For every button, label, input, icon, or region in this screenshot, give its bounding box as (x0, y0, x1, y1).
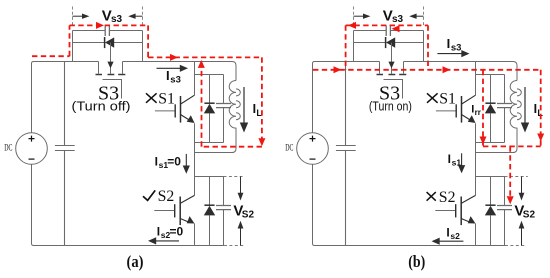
label Is3 with arrow (b) (437, 36, 469, 57)
red current path (b): main horizontal through S3 with right arrows (313, 66, 541, 73)
wire: S1 snubber bottom (b) (476, 142, 505, 144)
svg-text:S1: S1 (439, 91, 456, 108)
svg-text:(b): (b) (408, 252, 425, 271)
red current path (b): clamp loop top with left arrow (346, 22, 428, 29)
svg-text:S1: S1 (158, 91, 175, 108)
svg-text:I: I (157, 225, 160, 239)
red current path (a): clamp loop top with right arrow (70, 22, 149, 29)
svg-text:s3: s3 (392, 14, 404, 25)
label x-mark S1 (a) (146, 93, 157, 103)
label check-mark S2 (a) (143, 190, 155, 200)
red current path (b): drop to S2 snubber with down arrow (507, 146, 514, 204)
wire: top rail S3 to inductor (b) (404, 62, 518, 81)
diode Ds3 (points left) (b) (386, 37, 396, 48)
svg-text:s3: s3 (111, 14, 123, 25)
svg-text:S2: S2 (523, 210, 536, 221)
label VS2 (a) (233, 202, 254, 220)
red current path (b): clamp loop right vertical (427, 25, 429, 69)
svg-text:(Turn off): (Turn off) (72, 99, 131, 113)
wire: bottom rail (b) (315, 245, 506, 247)
wire: left rail bottom (a) (32, 164, 34, 245)
wire: bottom rail (a) (34, 245, 225, 247)
svg-text:rr: rr (475, 108, 481, 117)
wire: clamp block right stub (a) (142, 31, 144, 62)
wire: mid node S1/S2 (a) (195, 153, 224, 196)
diode D2 anti-parallel of S2 (points up) (b) (485, 177, 496, 246)
igbt S2 (a) (154, 195, 194, 245)
wire: left rail top, DC+ to top-left corner (a) (32, 62, 99, 133)
red current path (b): diode branch vertical with down arrow (480, 70, 487, 147)
label x-mark S2 (b) (427, 192, 436, 201)
dimension lines Vs3 (a) (73, 7, 143, 26)
red current path (a): top horizontal with right arrow (148, 54, 262, 61)
svg-text:I: I (448, 152, 451, 166)
wire: S1 snubber top (b) (476, 74, 505, 76)
svg-text:S2: S2 (158, 188, 175, 205)
label Irr (b) (471, 104, 481, 117)
svg-text:I: I (166, 68, 170, 83)
label x-mark S1 (b) (427, 93, 438, 103)
wire: S1 emitter rail to inductor bottom (b) (476, 152, 515, 154)
wire: S1 snubber top (a) (195, 74, 224, 76)
inductor L (b) (510, 81, 521, 153)
wire: gate drive drop with down arrow into S3 (a) (107, 43, 113, 74)
red current path (a): clamp loop left vertical (69, 25, 71, 56)
label Is1 with arrow (b) (448, 152, 466, 173)
diode D1 anti-parallel of S1 (points up) (a) (204, 75, 215, 143)
wire: mid node dashed extension (a) (224, 176, 243, 178)
dimension VS2 arrows (b) (519, 177, 525, 246)
red current path (b): clamp loop left vertical (345, 25, 347, 69)
diode D2 anti-parallel of S2 (points up) (a) (204, 177, 215, 246)
red current path (a): bottom horizontal (202, 146, 262, 148)
wire: mid node dashed extension (b) (505, 176, 528, 178)
red current path (a): right vertical with down arrow (258, 57, 265, 146)
wire: bottom rail dashed extension (a) (224, 245, 246, 247)
inductor L (a) (229, 81, 240, 153)
capacitor C2 snubber of S1 (b) (497, 75, 512, 143)
wire: clamp block right stub (b) (423, 31, 425, 62)
svg-text:s1: s1 (452, 158, 462, 168)
wire: clamp diode row (a) (73, 42, 143, 44)
svg-text:(a): (a) (127, 252, 144, 271)
wire: clamp block left stub (b) (353, 31, 355, 62)
svg-text:I: I (155, 155, 158, 169)
red current path (b): left arrow into clamp capacitor (392, 25, 400, 32)
dimension VS2 arrows (a) (238, 177, 244, 246)
wire: S1 snubber bottom (a) (195, 142, 224, 144)
wire: left rail bottom (b) (313, 164, 315, 245)
mosfet S3 (a) (96, 62, 126, 99)
diode D1 anti-parallel of S1 (points up) (b) (485, 75, 496, 143)
capacitor C1 dc-link (a) (55, 62, 75, 246)
igbt S1 (a) (155, 62, 195, 153)
svg-text:I: I (447, 36, 451, 51)
label Is1=0 with arrow (a) (155, 154, 190, 174)
wire: gate drive drop with down arrow into S3 (b) (388, 43, 394, 74)
capacitor C1 dc-link (b) (336, 62, 356, 246)
DC voltage source V1 (b) (297, 133, 329, 165)
red current path (b): right vertical around inductor with down arrow (537, 70, 544, 147)
wire: top rail S3 to inductor (a) (123, 62, 237, 81)
wire: S1 emitter rail to inductor bottom (a) (195, 152, 234, 154)
label Vs3 (b) (383, 7, 404, 25)
svg-text:=0: =0 (167, 155, 181, 169)
red current path (b): bottom horizontal (483, 145, 541, 147)
wire: clamp diode row (b) (354, 42, 424, 44)
svg-text:DC: DC (285, 144, 293, 154)
label Is2 with arrow (b) (432, 226, 464, 245)
diode Ds3 (points left) (a) (105, 37, 115, 48)
dimension lines Vs3 (b) (354, 7, 424, 26)
red current path (a): diode branch vertical with up arrow (198, 60, 205, 147)
capacitor Cs3 clamp (b) (354, 25, 424, 36)
igbt S2 (b) (435, 195, 475, 245)
label IL with arrow (a) (240, 87, 263, 133)
svg-text:s2: s2 (450, 231, 460, 241)
svg-text:DC: DC (4, 144, 12, 154)
svg-text:(Turn on): (Turn on) (369, 99, 412, 113)
capacitor Cs3 clamp (a) (73, 25, 143, 36)
svg-text:s3: s3 (170, 75, 181, 86)
svg-text:S2: S2 (439, 189, 456, 206)
svg-text:S2: S2 (242, 210, 255, 221)
svg-text:s3: s3 (451, 43, 462, 54)
label Vs3 (a) (102, 7, 123, 25)
label Is2=0 with arrow (a) (148, 225, 184, 245)
label IL with arrow (b) (521, 87, 544, 133)
svg-text:I: I (446, 226, 449, 240)
label Is3 with arrow (a) (157, 65, 189, 86)
wire: bottom rail dashed extension (b) (505, 245, 527, 247)
wire: clamp block left stub (a) (72, 31, 74, 62)
igbt S1 (b) (436, 62, 476, 153)
label VS2 (b) (514, 202, 535, 220)
red current path (a): clamp loop right vertical (147, 25, 149, 57)
wire: mid node S1/S2 (b) (476, 153, 505, 196)
wire: left rail top, DC+ to top-left corner (b) (313, 62, 380, 133)
capacitor C3 snubber of S2 (b) (497, 177, 512, 246)
capacitor C2 snubber of S1 (a) (216, 75, 231, 143)
capacitor C3 snubber of S2 (a) (216, 177, 231, 246)
svg-text:=0: =0 (170, 225, 184, 239)
mosfet S3 (b) (377, 62, 407, 99)
DC voltage source V1 (a) (16, 133, 48, 165)
red current path (a): left horizontal into clamp loop (32, 55, 70, 57)
